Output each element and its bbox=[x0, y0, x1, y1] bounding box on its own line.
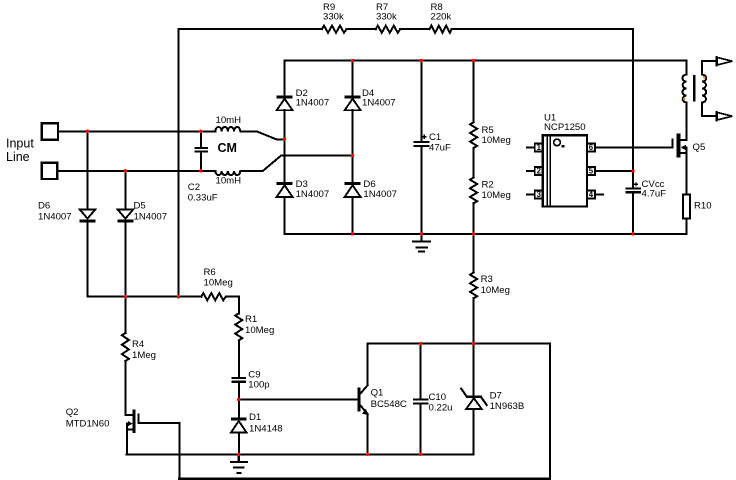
pin 3 bbox=[527, 191, 543, 199]
wire Q5 drain bbox=[686, 103, 688, 141]
diode D3 1N4007 bbox=[277, 182, 293, 234]
wire inner ground rail bbox=[126, 453, 473, 455]
svg-text:10Meg: 10Meg bbox=[482, 135, 511, 146]
svg-text:4: 4 bbox=[589, 190, 594, 199]
svg-text:220k: 220k bbox=[431, 12, 452, 23]
svg-text:Input: Input bbox=[6, 137, 34, 151]
label D1 value bbox=[249, 412, 283, 435]
svg-text:R10: R10 bbox=[694, 201, 712, 212]
label R7 value bbox=[376, 2, 397, 23]
node Input Line bbox=[6, 137, 34, 164]
svg-text:10Meg: 10Meg bbox=[204, 278, 233, 289]
svg-text:D5: D5 bbox=[134, 201, 146, 212]
label Q5 bbox=[693, 142, 706, 153]
wire input line 1 bbox=[58, 130, 215, 132]
capacitor C10 0.22u bbox=[414, 344, 427, 455]
svg-text:1N4148: 1N4148 bbox=[249, 424, 283, 435]
connector input square 2 bbox=[42, 163, 58, 179]
svg-text:R3: R3 bbox=[481, 274, 493, 285]
label R10 bbox=[694, 201, 712, 212]
wire left vertical from top rail bbox=[178, 29, 180, 297]
svg-text:Q1: Q1 bbox=[371, 388, 384, 399]
label R2 value bbox=[482, 179, 511, 201]
svg-text:Q2: Q2 bbox=[66, 407, 79, 418]
wire control box top rail bbox=[368, 343, 550, 345]
svg-text:C10: C10 bbox=[429, 392, 447, 403]
svg-text:D7: D7 bbox=[490, 390, 502, 401]
inductor CM choke top winding 10mH bbox=[215, 127, 240, 131]
svg-text:R2: R2 bbox=[482, 179, 494, 190]
diode D5 input 1N4007 bbox=[118, 171, 134, 297]
wire R1 to C9 bbox=[238, 340, 240, 377]
label R4 value bbox=[132, 339, 156, 361]
svg-text:6: 6 bbox=[589, 143, 594, 152]
wire lower-left sense rail bbox=[88, 296, 239, 298]
wire Q2 gate to feedback bbox=[140, 423, 180, 479]
output arrow bottom bbox=[717, 112, 733, 121]
svg-text:10mH: 10mH bbox=[216, 115, 242, 126]
ground symbol lower bbox=[231, 454, 247, 473]
wire secondary top lead bbox=[702, 61, 717, 74]
pin 4 bbox=[587, 191, 603, 199]
wire Q1 collector bbox=[367, 344, 369, 386]
transistor Q1 BC548C bbox=[357, 385, 368, 415]
connector input square 1 bbox=[42, 123, 58, 139]
label D6 bridge value bbox=[363, 179, 397, 200]
pin number 4 bbox=[589, 190, 594, 199]
resistor R1 10Meg bbox=[235, 313, 242, 340]
wire R4 branch bbox=[124, 297, 126, 333]
resistor R5 10Meg bbox=[470, 61, 477, 148]
svg-text:10mH: 10mH bbox=[216, 176, 242, 187]
resistor R2 10Meg bbox=[470, 148, 477, 234]
svg-text:0.33uF: 0.33uF bbox=[188, 192, 218, 203]
transformer T1 primary winding bbox=[682, 75, 686, 103]
phase dot secondary bbox=[703, 76, 706, 79]
wire top startup rail bbox=[179, 28, 634, 30]
wire CM top output to bridge bbox=[240, 131, 284, 139]
pin 5 bbox=[587, 167, 595, 175]
svg-text:3: 3 bbox=[537, 190, 542, 199]
pin number 1 bbox=[537, 143, 542, 152]
wire R4 to Q2 drain bbox=[125, 361, 132, 415]
label 10mH top bbox=[216, 115, 242, 126]
inductor CM choke bottom winding 10mH bbox=[215, 171, 240, 175]
pin 6 bbox=[587, 144, 595, 152]
pin number 2 bbox=[537, 167, 542, 176]
svg-text:D6: D6 bbox=[38, 201, 50, 212]
svg-text:Q5: Q5 bbox=[693, 142, 706, 153]
svg-text:1N4007: 1N4007 bbox=[134, 212, 168, 223]
pin number 3 bbox=[537, 190, 542, 199]
label D4 value bbox=[362, 88, 396, 109]
label Q1 BC548C bbox=[371, 388, 407, 411]
wire CM bottom output to bridge mid rail bbox=[240, 156, 352, 171]
op-amp U1 NCP1250 body bbox=[543, 135, 587, 206]
svg-text:2: 2 bbox=[537, 167, 542, 176]
label C10 value bbox=[429, 392, 453, 414]
svg-text:NCP1250: NCP1250 bbox=[544, 122, 586, 133]
label CVcc value bbox=[642, 179, 667, 199]
capacitor C9 100p bbox=[233, 378, 246, 382]
label C1 value bbox=[429, 132, 451, 153]
capacitor C1 47uF bbox=[414, 61, 428, 234]
wire right edge feedback bbox=[549, 344, 551, 479]
svg-text:1Meg: 1Meg bbox=[132, 350, 156, 361]
label R6 value bbox=[204, 267, 233, 288]
wire Q5 source to R10 bbox=[686, 148, 688, 195]
label R5 value bbox=[482, 125, 511, 146]
svg-text:BC548C: BC548C bbox=[371, 399, 407, 410]
transistor Q2 MTD1N60 MOSFET bbox=[127, 409, 140, 454]
wire startup vertical to Vcc bbox=[632, 29, 634, 234]
capacitor CVcc 4.7uF bbox=[627, 183, 641, 193]
wire C9 to D1 node bbox=[238, 383, 240, 418]
svg-text:1N4007: 1N4007 bbox=[296, 98, 330, 109]
wire pin5 to Vcc node bbox=[595, 170, 633, 172]
label D5 value bbox=[134, 201, 168, 223]
resistor R9 bbox=[322, 26, 347, 33]
label C9 value bbox=[248, 370, 269, 391]
svg-text:1N963B: 1N963B bbox=[490, 401, 525, 412]
wire R3 column bbox=[473, 234, 475, 344]
label C2 value bbox=[188, 182, 218, 203]
wire DC bus top of bridge bbox=[285, 61, 687, 75]
svg-text:1N4007: 1N4007 bbox=[38, 212, 72, 223]
svg-text:D1: D1 bbox=[249, 412, 261, 423]
pin number 6 bbox=[589, 143, 594, 152]
svg-text:5: 5 bbox=[589, 167, 594, 176]
svg-text:100p: 100p bbox=[248, 379, 269, 390]
svg-text:47uF: 47uF bbox=[429, 142, 451, 153]
wire Q1 base line bbox=[239, 398, 358, 400]
resistor R4 1Meg bbox=[122, 333, 129, 361]
svg-text:1: 1 bbox=[537, 143, 542, 152]
diode D4 1N4007 bbox=[345, 61, 361, 183]
resistor R10 bbox=[683, 195, 690, 234]
transformer secondary winding bbox=[702, 75, 706, 103]
svg-text:C1: C1 bbox=[429, 132, 441, 143]
label U1 NCP1250 bbox=[544, 112, 586, 133]
svg-text:330k: 330k bbox=[323, 12, 344, 23]
wire input line 2 bbox=[57, 170, 215, 172]
diode D6 input 1N4007 bbox=[80, 131, 96, 296]
svg-text:MTD1N60: MTD1N60 bbox=[66, 418, 110, 429]
transistor Q5 MOSFET bbox=[673, 134, 687, 158]
resistor R6 10Meg bbox=[201, 293, 226, 300]
svg-text:330k: 330k bbox=[376, 12, 397, 23]
diode D7 zener 1N963B bbox=[461, 344, 486, 455]
svg-text:R4: R4 bbox=[132, 339, 145, 350]
output arrow top bbox=[717, 57, 733, 66]
diode D2 1N4007 bbox=[277, 61, 293, 183]
wire secondary bottom lead bbox=[702, 103, 717, 117]
label R9 value bbox=[323, 2, 344, 23]
pin 2 bbox=[527, 167, 543, 175]
svg-text:1N4007: 1N4007 bbox=[296, 189, 330, 200]
label R3 value bbox=[481, 274, 510, 296]
svg-text:1N4007: 1N4007 bbox=[362, 98, 396, 109]
svg-text:10Meg: 10Meg bbox=[245, 325, 274, 336]
label D3 value bbox=[296, 179, 330, 200]
pin number 5 bbox=[589, 167, 594, 176]
svg-text:CM: CM bbox=[218, 141, 237, 155]
wire outer bottom rail bbox=[179, 478, 550, 480]
pin 1 bbox=[527, 144, 543, 152]
wire pin6 to Q5 gate bbox=[595, 147, 673, 149]
svg-text:0.22u: 0.22u bbox=[429, 403, 453, 414]
resistor R3 10Meg bbox=[470, 273, 477, 299]
label 10mH bottom bbox=[216, 176, 242, 187]
phase dot primary bbox=[683, 98, 686, 101]
svg-text:1N4007: 1N4007 bbox=[363, 189, 397, 200]
capacitor C2 0.33uF bbox=[195, 131, 207, 171]
label R1 value bbox=[245, 314, 274, 336]
resistor R7 bbox=[376, 26, 400, 33]
svg-text:Line: Line bbox=[6, 150, 30, 164]
svg-text:10Meg: 10Meg bbox=[481, 285, 510, 296]
diode D6 bridge 1N4007 bbox=[345, 182, 361, 234]
svg-text:R1: R1 bbox=[245, 314, 257, 325]
wire Q1 emitter bbox=[367, 414, 369, 454]
label D2 value bbox=[296, 88, 330, 109]
label Q2 MTD1N60 bbox=[66, 407, 110, 429]
label D7 zener value bbox=[490, 390, 525, 412]
svg-text:4.7uF: 4.7uF bbox=[642, 189, 667, 200]
transformer core bbox=[693, 76, 695, 100]
label R8 value bbox=[431, 2, 452, 23]
wire R1 branch down bbox=[238, 297, 240, 314]
label CM bbox=[218, 141, 237, 155]
svg-text:10Meg: 10Meg bbox=[482, 190, 511, 201]
resistor R8 bbox=[430, 26, 452, 33]
ground symbol bridge bbox=[413, 234, 430, 252]
diode D1 1N4148 bbox=[231, 418, 247, 455]
label D6 input value bbox=[38, 201, 72, 223]
wire bridge bottom rail bbox=[285, 233, 687, 235]
